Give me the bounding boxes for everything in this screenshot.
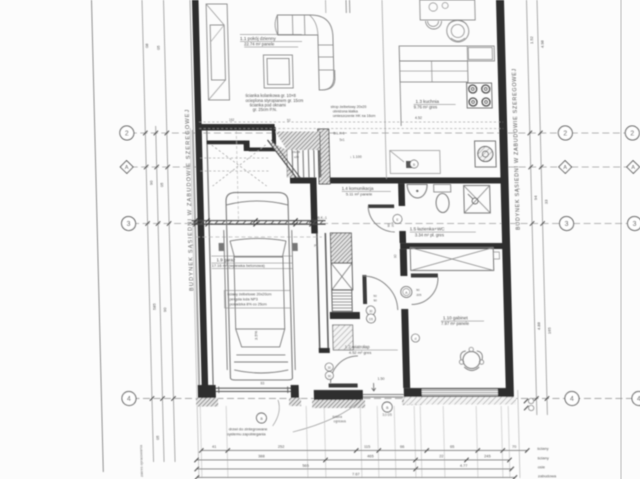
svg-text:4.52: 4.52 [415, 116, 422, 120]
svg-text:1.3 kuchnia: 1.3 kuchnia [415, 99, 439, 104]
svg-text:70: 70 [512, 444, 517, 449]
svg-text:565: 565 [302, 463, 309, 468]
svg-text:ściana: ściana [332, 415, 342, 419]
svg-text:BUDYNEK SĄSIEDNI W ZABUDOWIE S: BUDYNEK SĄSIEDNI W ZABUDOWIE SZEREGOWEJ [512, 68, 522, 230]
svg-text:4: 4 [127, 396, 131, 403]
svg-text:x29: x29 [294, 155, 299, 159]
svg-text:5.11 m² panele: 5.11 m² panele [346, 192, 373, 197]
svg-text:17.16 m² (wylewka betonowa): 17.16 m² (wylewka betonowa) [212, 263, 266, 268]
svg-text:4: 4 [570, 396, 574, 403]
svg-text:1.4 komunikacja: 1.4 komunikacja [342, 186, 374, 191]
svg-text:52: 52 [287, 119, 291, 123]
svg-text:1.10 gabinet: 1.10 gabinet [443, 316, 469, 321]
svg-text:systemu zapobiegania: systemu zapobiegania [227, 432, 267, 437]
svg-text:3.34 m² pł. gres: 3.34 m² pł. gres [415, 233, 444, 238]
svg-text:ściany: ściany [537, 446, 548, 451]
svg-text:4.52 m² gres: 4.52 m² gres [349, 350, 372, 355]
svg-text:obniżona klatka: obniżona klatka [333, 110, 358, 114]
svg-text:83: 83 [261, 382, 265, 386]
svg-text:4.88: 4.88 [536, 321, 541, 330]
svg-text:D5: D5 [369, 318, 373, 322]
svg-text:zakres opracowania: zakres opracowania [139, 445, 144, 477]
svg-text:2: 2 [125, 130, 129, 137]
svg-text:1.52: 1.52 [529, 35, 534, 44]
svg-text:05: 05 [159, 182, 164, 187]
svg-text:30: 30 [327, 366, 331, 370]
svg-text:gr. 25cm P.N.: gr. 25cm P.N. [253, 107, 277, 112]
svg-text:3.5%: 3.5% [253, 330, 258, 340]
svg-text:7.67: 7.67 [352, 472, 360, 477]
svg-text:585: 585 [152, 303, 157, 310]
svg-text:3: 3 [565, 221, 569, 228]
svg-text:205: 205 [416, 293, 421, 297]
svg-text:115: 115 [364, 444, 370, 449]
svg-text:1.50: 1.50 [377, 377, 384, 381]
svg-text:3: 3 [633, 221, 637, 228]
svg-text:90: 90 [373, 299, 377, 303]
svg-text:4.77: 4.77 [460, 463, 468, 468]
svg-text:A: A [563, 165, 567, 171]
svg-text:252: 252 [278, 444, 285, 449]
svg-text:5x1: 5x1 [339, 138, 344, 142]
svg-text:388: 388 [258, 454, 265, 459]
svg-text:05: 05 [156, 45, 161, 50]
svg-text:65: 65 [450, 444, 454, 449]
svg-text:A: A [125, 165, 129, 171]
svg-text:ściany: ściany [537, 456, 548, 461]
svg-text:A: A [631, 165, 635, 171]
svg-text:1.2 wiatrołap: 1.2 wiatrołap [345, 345, 371, 350]
svg-text:3,0 D5: 3,0 D5 [382, 413, 392, 417]
svg-text:90: 90 [416, 288, 420, 292]
svg-text:7.97 m² panele: 7.97 m² panele [441, 321, 470, 326]
svg-text:66: 66 [400, 444, 404, 449]
svg-text:165: 165 [547, 327, 552, 334]
svg-text:↓ 1.100: ↓ 1.100 [350, 155, 362, 159]
svg-text:2: 2 [630, 130, 634, 137]
svg-text:08: 08 [144, 43, 149, 48]
svg-text:30: 30 [369, 310, 373, 314]
svg-text:1.9 garaż: 1.9 garaż [216, 258, 236, 263]
svg-text:3: 3 [127, 221, 131, 228]
svg-text:osie: osie [538, 465, 546, 470]
svg-text:1.1 pokój dzienny: 1.1 pokój dzienny [240, 36, 277, 41]
svg-text:B.Ł.K-1: B.Ł.K-1 [333, 132, 345, 136]
svg-text:1.5 łazienka+WC: 1.5 łazienka+WC [410, 227, 446, 232]
svg-text:16x18: 16x18 [292, 150, 301, 154]
svg-text:205: 205 [391, 222, 395, 227]
svg-text:4.98: 4.98 [539, 39, 544, 48]
svg-text:ściany żelbetowe 20x20cm: ściany żelbetowe 20x20cm [227, 293, 271, 297]
svg-text:2: 2 [563, 130, 567, 137]
svg-text:90: 90 [162, 307, 167, 312]
svg-text:umieszczenie HK na 16cm: umieszczenie HK na 16cm [333, 114, 376, 118]
svg-text:22: 22 [439, 454, 443, 459]
svg-text:41: 41 [212, 444, 216, 449]
svg-text:ogniowa: ogniowa [333, 420, 346, 424]
svg-text:162: 162 [229, 118, 235, 122]
svg-text:50: 50 [373, 294, 377, 298]
svg-text:d: d [414, 337, 416, 341]
svg-text:zabudowa: zabudowa [538, 474, 557, 479]
svg-text:posadzka 8% co 25cm: posadzka 8% co 25cm [230, 303, 267, 307]
svg-text:9.76 m² gres: 9.76 m² gres [414, 105, 438, 110]
svg-text:22.74 m² panele: 22.74 m² panele [244, 42, 275, 47]
svg-text:245: 245 [484, 454, 491, 459]
svg-text:94: 94 [533, 195, 538, 200]
svg-text:90: 90 [148, 180, 153, 185]
svg-text:465: 465 [367, 454, 374, 459]
svg-text:pergola loża NP3: pergola loża NP3 [229, 298, 257, 302]
svg-text:P1: P1 [314, 244, 318, 248]
svg-text:strop żelbetowy 20x20: strop żelbetowy 20x20 [331, 105, 367, 109]
svg-text:33: 33 [543, 199, 548, 204]
svg-text:90: 90 [328, 375, 332, 379]
svg-text:90: 90 [393, 254, 397, 258]
svg-text:05: 05 [155, 435, 160, 440]
svg-text:B.K.-1: B.K.-1 [317, 216, 327, 220]
